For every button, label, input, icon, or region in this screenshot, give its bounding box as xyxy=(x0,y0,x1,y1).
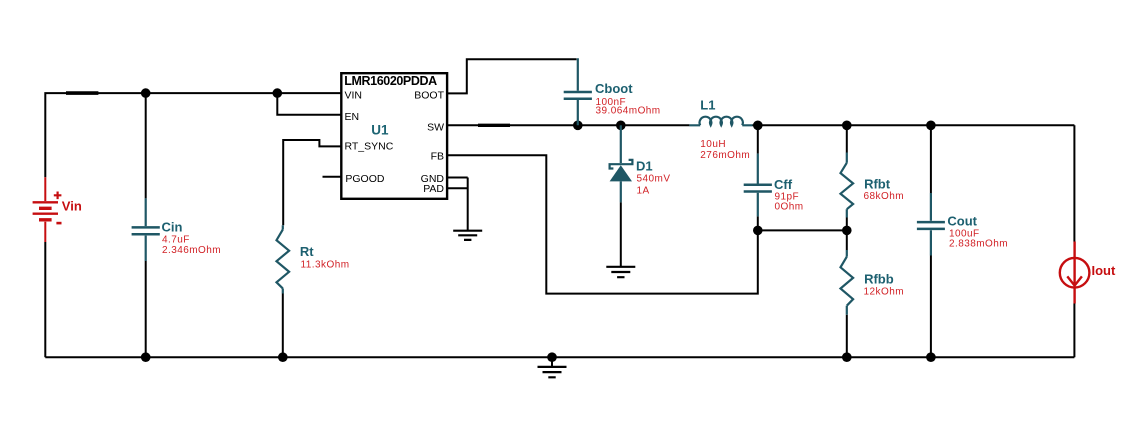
wire SW thick overlap segment xyxy=(478,124,510,127)
svg-text:39.064mOhm: 39.064mOhm xyxy=(596,106,661,117)
svg-text:12kOhm: 12kOhm xyxy=(864,287,905,298)
inductor L1 xyxy=(689,117,752,126)
svg-text:RT_SYNC: RT_SYNC xyxy=(345,141,394,153)
svg-text:Iout: Iout xyxy=(1092,263,1116,278)
node dot Cin bottom xyxy=(141,352,151,362)
svg-text:Cboot: Cboot xyxy=(595,81,633,96)
svg-text:4.7uF: 4.7uF xyxy=(162,235,190,246)
wire BOOT loop xyxy=(447,59,576,93)
wire Cff branch black xyxy=(757,125,759,230)
wire FB loop xyxy=(447,155,758,293)
svg-text:D1: D1 xyxy=(636,159,653,174)
svg-text:1A: 1A xyxy=(637,185,650,196)
svg-text:SW: SW xyxy=(427,122,444,134)
resistor Rfbt xyxy=(841,153,854,218)
svg-text:Rt: Rt xyxy=(300,244,314,259)
svg-text:PAD: PAD xyxy=(423,183,444,195)
node dot Cin top xyxy=(141,88,151,98)
capacitor Cin xyxy=(132,198,160,261)
wire top rail thick overlap segment xyxy=(66,91,98,95)
wire Cin branch xyxy=(145,93,147,357)
svg-text:540mV: 540mV xyxy=(637,174,671,185)
svg-text:Rfbb: Rfbb xyxy=(864,271,894,286)
wire Cout branch black xyxy=(930,125,932,357)
svg-text:Vin: Vin xyxy=(62,198,82,213)
node dot Cff bottom xyxy=(753,226,763,236)
svg-text:68kOhm: 68kOhm xyxy=(864,191,905,202)
svg-text:2.346mOhm: 2.346mOhm xyxy=(162,245,221,256)
node dot Rfbt top xyxy=(842,121,852,131)
svg-text:Cin: Cin xyxy=(162,220,183,235)
wire SW line xyxy=(447,124,1074,126)
wire EN branch xyxy=(277,93,341,115)
node dot Rt bottom xyxy=(278,352,288,362)
current source Iout xyxy=(1060,242,1090,304)
resistor Rfbb xyxy=(841,250,854,315)
svg-text:LMR16020PDDA: LMR16020PDDA xyxy=(344,74,437,88)
wire top rail xyxy=(45,93,341,177)
node dot Rfbb bottom xyxy=(842,352,852,362)
wire PGOOD stub xyxy=(323,176,342,178)
ground under D1 xyxy=(606,267,635,277)
wire bottom rail xyxy=(45,356,1074,358)
node dot EN junction xyxy=(273,88,283,98)
svg-text:VIN: VIN xyxy=(345,90,363,102)
svg-text:BOOT: BOOT xyxy=(414,90,444,102)
node dot feedback mid xyxy=(842,226,852,236)
svg-text:276mOhm: 276mOhm xyxy=(700,150,750,161)
node dot Cff top xyxy=(753,121,763,131)
svg-text:PGOOD: PGOOD xyxy=(345,173,385,185)
svg-text:2.838mOhm: 2.838mOhm xyxy=(949,239,1008,250)
wire mid feedback line xyxy=(758,229,847,231)
ground G1 under GND PAD xyxy=(453,231,482,240)
resistor Rt xyxy=(277,225,290,293)
svg-text:FB: FB xyxy=(431,151,444,163)
svg-text:0Ohm: 0Ohm xyxy=(775,202,804,213)
wire battery bottom lead black xyxy=(44,242,46,357)
node dot Cout top xyxy=(926,121,936,131)
svg-text:U1: U1 xyxy=(371,122,389,137)
svg-text:EN: EN xyxy=(345,111,360,123)
wire D1 anode black xyxy=(620,202,622,266)
node dot D1 SW xyxy=(616,121,626,131)
wire RT_SYNC branch xyxy=(283,140,341,225)
battery Vin xyxy=(33,177,62,242)
wire right output vertical black xyxy=(1073,125,1075,357)
svg-text:Cout: Cout xyxy=(947,214,977,229)
wire Rfbb branch black xyxy=(846,230,848,357)
svg-text:L1: L1 xyxy=(700,98,715,113)
svg-text:Rfbt: Rfbt xyxy=(864,177,891,192)
node dot ground rail xyxy=(547,352,557,362)
ground bottom rail xyxy=(538,367,567,377)
capacitor Cboot xyxy=(564,58,592,125)
diode D1 schottky xyxy=(610,125,633,202)
wire Rfbt branch black xyxy=(846,125,848,230)
svg-text:Cff: Cff xyxy=(774,177,793,192)
svg-text:11.3kOhm: 11.3kOhm xyxy=(301,260,350,271)
node dot Cout bottom xyxy=(926,352,936,362)
capacitor Cff xyxy=(744,154,772,217)
svg-text:100uF: 100uF xyxy=(949,228,980,239)
node dot Cboot SW xyxy=(573,121,583,131)
wire bottom ground stem xyxy=(551,357,553,367)
svg-text:10uH: 10uH xyxy=(700,139,726,150)
wire GND PAD join xyxy=(447,178,468,231)
capacitor Cout xyxy=(917,193,945,256)
IC U1 LMR16020PDDA box xyxy=(341,73,447,199)
